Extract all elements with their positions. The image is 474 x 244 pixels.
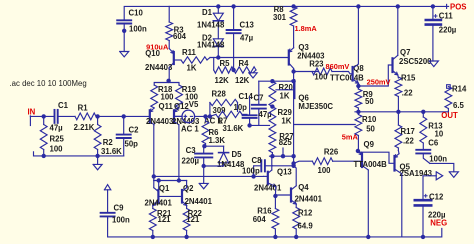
node top-rail junction C11 <box>431 4 435 8</box>
label R22 value <box>186 215 200 224</box>
label 910uA <box>146 42 169 51</box>
label C10 <box>129 9 144 18</box>
wire Q3 collector node <box>293 69 295 82</box>
svg-text:64.9: 64.9 <box>298 222 314 231</box>
label Q5 value <box>400 169 433 178</box>
resistor R26 <box>312 158 332 165</box>
svg-text:31.6K: 31.6K <box>101 147 122 156</box>
label C11 <box>439 12 454 21</box>
label R26 value <box>318 166 332 175</box>
transistor Q8 TTC004B <box>353 64 359 83</box>
wire rail to R3 <box>168 6 170 22</box>
wire mirror base rail <box>158 195 182 197</box>
svg-text:2SA1943: 2SA1943 <box>400 169 433 178</box>
label Q4 value <box>295 195 323 204</box>
svg-text:R14: R14 <box>452 85 467 94</box>
svg-text:C11: C11 <box>439 12 454 21</box>
label C11 value <box>439 26 457 35</box>
node top-rail junction D1 <box>216 4 220 8</box>
label D2 value <box>197 41 225 50</box>
svg-text:R25: R25 <box>50 135 65 144</box>
node bus c <box>291 154 295 158</box>
label R12 value <box>298 222 314 231</box>
wire mirror top bus <box>154 180 187 182</box>
node top-rail junction R8 <box>291 4 295 8</box>
capacitor C14 <box>243 97 257 125</box>
wire R8 to Q3 emitter <box>293 26 295 48</box>
capacitor C11 <box>426 6 441 61</box>
resistor R8 <box>290 6 297 26</box>
label R25 <box>50 135 65 144</box>
label R21 <box>157 209 172 218</box>
label C8 <box>252 156 263 165</box>
svg-text:47µ: 47µ <box>240 34 254 43</box>
resistor R14 <box>445 87 452 112</box>
label R27 value <box>279 138 293 147</box>
svg-text:100: 100 <box>50 145 64 154</box>
label C3 <box>186 146 197 155</box>
label R1 value <box>74 123 95 132</box>
svg-text:2N4401: 2N4401 <box>185 197 213 206</box>
label D5 <box>232 150 243 159</box>
resistor R17 <box>395 112 402 151</box>
label 1.8mA <box>295 24 318 33</box>
label Q7 value <box>399 57 432 66</box>
svg-text:R10: R10 <box>362 115 377 124</box>
wire C2 node to Q11 base <box>124 115 150 117</box>
node C8 left <box>251 174 255 178</box>
wire Q9 collector down <box>367 170 369 237</box>
svg-text:47µ: 47µ <box>50 123 64 132</box>
wire Q6 emitter bar <box>259 80 294 82</box>
node C14 bottom <box>247 123 251 127</box>
svg-text:2N4401: 2N4401 <box>254 184 282 193</box>
resistor R20 <box>269 81 276 109</box>
node R2 bottom <box>95 154 99 158</box>
label R13 value <box>435 130 444 139</box>
label Q8 value <box>330 74 364 83</box>
ground below C3 <box>199 183 208 188</box>
label Q10 value <box>145 63 173 72</box>
capacitor C8 <box>254 160 273 176</box>
svg-text:121: 121 <box>186 215 200 224</box>
svg-text:50: 50 <box>365 97 374 106</box>
node mirror top right <box>177 178 181 182</box>
label Q6 <box>298 93 309 102</box>
node rail R21 <box>151 235 155 239</box>
wire mirror to Q13 base <box>154 175 264 177</box>
label R17 value <box>403 137 415 146</box>
wire mirror tie <box>158 181 160 197</box>
resistor R27 <box>269 131 276 153</box>
ground below C11 <box>429 61 438 67</box>
label Q3 value <box>297 52 325 61</box>
svg-text:100: 100 <box>314 72 328 81</box>
wire Q7 collector to rail <box>397 6 399 55</box>
wire Q13 collector up <box>271 156 273 170</box>
node R2 top <box>95 114 99 118</box>
label Q8 <box>353 64 364 73</box>
label C13 <box>240 21 255 30</box>
label Q1 <box>159 184 170 193</box>
svg-text:.ac dec 10 10 100Meg: .ac dec 10 10 100Meg <box>10 79 87 88</box>
text .ac directive <box>10 79 87 88</box>
label R15 value <box>402 88 414 97</box>
node rail R16 <box>273 235 277 239</box>
svg-text:R12: R12 <box>298 209 313 218</box>
node top-rail junction C13 <box>231 4 235 8</box>
svg-text:1K: 1K <box>281 116 291 125</box>
node column R26 <box>291 161 295 165</box>
node R20 top <box>270 79 274 83</box>
resistor R6 <box>202 116 209 148</box>
svg-text:100: 100 <box>161 93 175 102</box>
label Q10 <box>145 49 160 58</box>
label C9 value <box>112 216 130 225</box>
svg-text:604: 604 <box>173 32 187 41</box>
label Q12 value <box>172 117 200 126</box>
svg-text:50: 50 <box>366 125 375 134</box>
resistor R13 <box>420 112 427 150</box>
label D1 <box>202 8 213 17</box>
node C2 top <box>122 114 126 118</box>
resistor R3 <box>166 22 173 41</box>
diode D5 1N4148 <box>219 146 229 166</box>
svg-text:R11: R11 <box>182 48 197 57</box>
resistor R18 <box>151 85 158 108</box>
svg-text:TTC004B: TTC004B <box>330 74 364 83</box>
label R29 <box>278 108 293 117</box>
wire Q8 collector to rail <box>357 6 359 64</box>
wire Q8 emitter down <box>357 83 359 89</box>
node Q9 emitter top <box>356 149 360 153</box>
label R28 <box>212 90 227 99</box>
label R16 <box>257 206 272 215</box>
label V5 <box>189 100 199 109</box>
resistor R22 <box>183 206 190 237</box>
svg-text:100p: 100p <box>242 167 260 176</box>
port POS <box>447 2 467 11</box>
wire R11 to bias node <box>207 58 210 61</box>
wire Q13 emitter down <box>274 187 276 197</box>
label R8 <box>274 5 285 14</box>
capacitor C10 <box>117 20 131 31</box>
label C6 value <box>429 154 447 163</box>
label Q1 value <box>145 199 173 208</box>
resistor R12 <box>293 208 300 237</box>
svg-text:12K: 12K <box>215 76 230 85</box>
svg-text:2SC5200: 2SC5200 <box>399 57 432 66</box>
label C3 value <box>182 157 200 166</box>
resistor R25 <box>40 116 47 155</box>
svg-text:C1: C1 <box>58 101 69 110</box>
svg-text:R28: R28 <box>212 90 227 99</box>
wire Q5 base <box>358 151 394 163</box>
ground below R2 <box>93 164 102 169</box>
svg-text:100n: 100n <box>429 154 447 163</box>
label Q2 <box>183 184 194 193</box>
svg-text:604: 604 <box>253 215 267 224</box>
svg-text:Q9: Q9 <box>364 140 375 149</box>
label R20 value <box>280 92 290 101</box>
node bus a <box>270 154 274 158</box>
svg-text:C2: C2 <box>129 126 140 135</box>
transistor Q12 2N4403 <box>174 108 182 125</box>
wire R27 bottom to node <box>271 153 273 157</box>
label C12 <box>429 193 444 202</box>
label R9 value <box>365 97 374 106</box>
port IN <box>28 108 36 126</box>
wire Q5 collector down <box>401 174 403 237</box>
svg-text:1K: 1K <box>280 92 290 101</box>
transistor Q7 2SC5200 <box>393 55 398 75</box>
svg-text:OUT: OUT <box>441 111 458 120</box>
node OUT R17 <box>396 110 400 114</box>
label R13 <box>428 121 443 130</box>
node bus b <box>281 154 285 158</box>
svg-text:10p: 10p <box>234 103 248 112</box>
transistor Q13 2N4401 <box>264 170 276 187</box>
label Q4 <box>298 183 309 192</box>
wire C8 right to column <box>272 165 293 167</box>
wire input ground bus <box>34 152 124 156</box>
svg-text:47µ: 47µ <box>259 110 273 119</box>
svg-text:R2: R2 <box>103 138 114 147</box>
label R5 <box>220 59 231 68</box>
label Q11 <box>159 102 174 111</box>
node top-rail junction Q7 <box>396 4 400 8</box>
svg-text:Q2: Q2 <box>183 184 194 193</box>
label R3 <box>174 25 185 34</box>
node OUT R13 <box>421 110 425 114</box>
resistor R29 <box>269 107 276 131</box>
svg-text:R1: R1 <box>78 104 89 113</box>
label Q6 value <box>298 102 333 111</box>
label R19 value <box>185 93 199 102</box>
svg-text:C3: C3 <box>186 146 197 155</box>
label D5 value <box>217 160 245 169</box>
svg-text:R26: R26 <box>324 147 339 156</box>
wire Q10 collector to tail <box>168 68 170 81</box>
wire C10 to ground <box>123 31 125 52</box>
label R23 <box>309 60 324 69</box>
capacitor C6 <box>416 150 430 164</box>
label Q5 <box>400 163 411 172</box>
resistor R19 <box>176 85 183 108</box>
wire Q4 collector up <box>294 166 297 186</box>
svg-text:250mV: 250mV <box>367 78 391 87</box>
label Q9 <box>364 140 375 149</box>
node C3 bottom <box>202 164 206 168</box>
svg-text:.22: .22 <box>403 137 415 146</box>
svg-text:C7: C7 <box>254 94 264 103</box>
label D2 <box>202 34 213 43</box>
wire C3 ground stem <box>203 166 205 183</box>
svg-text:D1: D1 <box>202 8 213 17</box>
wire Q7 base <box>358 65 392 86</box>
wire C6 to ground <box>430 163 454 171</box>
wire Q11 collector down <box>153 125 155 181</box>
ground above C9 <box>104 185 110 213</box>
wire Q6 base <box>276 89 293 91</box>
resistor R21 <box>149 206 156 237</box>
label Q13 value <box>254 184 282 193</box>
label R16 value <box>253 215 267 224</box>
label R26 <box>324 147 339 156</box>
svg-text:C6: C6 <box>428 139 439 148</box>
wire R28 right leg <box>237 103 239 112</box>
svg-text:1N4148: 1N4148 <box>217 160 245 169</box>
svg-text:R15: R15 <box>401 73 416 82</box>
capacitor C1 <box>55 110 76 123</box>
label R25 value <box>50 145 64 154</box>
svg-text:Q11: Q11 <box>159 102 174 111</box>
label C14 <box>239 92 254 101</box>
svg-text:31.6K: 31.6K <box>223 124 244 133</box>
wire IN to C1 <box>30 115 54 117</box>
svg-text:10: 10 <box>435 130 444 139</box>
svg-text:2N4401: 2N4401 <box>145 199 173 208</box>
wire R1 to R2 node <box>96 115 124 117</box>
transistor Q2 2N4401 <box>182 181 187 206</box>
svg-text:2N4401: 2N4401 <box>295 195 323 204</box>
label C13 value <box>240 34 254 43</box>
label Q11 value <box>146 117 174 126</box>
node feedback R28 <box>208 114 212 118</box>
label R14 value <box>453 101 465 110</box>
label R28 value <box>213 106 227 115</box>
node rail Q9 <box>366 235 370 239</box>
svg-text:C12: C12 <box>429 193 444 202</box>
svg-text:220µ: 220µ <box>439 26 457 35</box>
label R27 <box>279 132 293 141</box>
ground below C10 <box>120 52 129 57</box>
wire R27-node bus <box>270 155 294 157</box>
svg-text:Q1: Q1 <box>159 184 170 193</box>
diode D2 1N4148 <box>213 39 223 58</box>
wire Q6 collector down <box>293 81 295 166</box>
label C1 <box>58 101 69 110</box>
svg-text:C8: C8 <box>252 156 263 165</box>
node Q3 collector <box>291 69 295 73</box>
wire OUT rail <box>355 111 448 113</box>
wire stub 283 <box>282 148 284 156</box>
wire Q12 collector down <box>178 125 180 181</box>
node C10 bottom <box>122 29 126 33</box>
label R21 value <box>158 215 172 224</box>
label R4 <box>239 59 250 68</box>
svg-text:NEG: NEG <box>430 219 447 228</box>
svg-text:TTA004B: TTA004B <box>354 160 388 169</box>
transistor Q11 2N4403 <box>150 108 154 125</box>
wire bias node to Q3 base <box>210 57 289 59</box>
label Q9 value <box>354 160 388 169</box>
wire bottom NEG rail <box>108 218 442 237</box>
wire Q4 emitter down <box>295 204 297 208</box>
transistor Q3 2N4403 <box>289 48 294 69</box>
capacitor C2 <box>117 116 131 155</box>
open pin R14 <box>447 85 451 89</box>
svg-text:C14: C14 <box>239 92 254 101</box>
label R1 <box>78 104 89 113</box>
label R10 <box>362 115 377 124</box>
svg-text:R23: R23 <box>309 60 324 69</box>
resistor R4 <box>231 67 256 73</box>
label 250mV <box>367 78 391 87</box>
svg-text:1K: 1K <box>187 64 197 73</box>
svg-text:100n: 100n <box>112 216 130 225</box>
label R17 <box>401 127 415 136</box>
label R6 value <box>209 136 226 145</box>
transistor Q1 2N4401 <box>153 181 159 206</box>
node mirror top left <box>157 178 161 182</box>
voltage source V5 <box>174 110 210 123</box>
label R10 value <box>366 125 375 134</box>
svg-text:POS: POS <box>450 2 466 11</box>
label C2 <box>129 126 140 135</box>
svg-text:MJE350C: MJE350C <box>298 102 333 111</box>
wire R2 ground stem <box>97 156 99 165</box>
node mirror left <box>152 174 156 178</box>
svg-text:2N4403: 2N4403 <box>146 117 174 126</box>
svg-text:1.8mA: 1.8mA <box>295 24 318 33</box>
label R11 <box>182 48 197 57</box>
svg-text:C9: C9 <box>114 204 125 213</box>
label D1 value <box>197 21 225 30</box>
label R14 <box>452 85 467 94</box>
label V5 value <box>181 125 199 134</box>
label Q13 <box>277 168 292 177</box>
wire Q3col to R23 <box>294 71 318 73</box>
label R2 value <box>101 147 122 156</box>
label Q3 <box>298 43 309 52</box>
ground right of C6 <box>449 172 458 178</box>
label V5 value 2 <box>204 117 222 126</box>
node top-rail junction Q8 <box>356 4 360 8</box>
resistor R11 <box>181 57 207 63</box>
capacitor C12 <box>415 194 431 237</box>
label R4 value <box>235 76 250 85</box>
label R5 value <box>215 76 230 85</box>
wire R23 to Q8 base <box>343 72 353 74</box>
label R18 value <box>161 93 175 102</box>
svg-text:Q4: Q4 <box>298 183 309 192</box>
svg-text:6.5: 6.5 <box>453 101 465 110</box>
wire Q7 emitter to R15 <box>397 75 400 78</box>
label C9 <box>114 204 125 213</box>
svg-text:R4: R4 <box>239 59 250 68</box>
resistor R5 <box>214 67 234 73</box>
svg-text:1N4148: 1N4148 <box>197 21 225 30</box>
resistor R28 <box>210 99 238 116</box>
label C2 value <box>125 139 139 148</box>
wire R6 to D5 <box>204 145 224 147</box>
wire Q5 emitter link <box>397 151 400 154</box>
node Q6 emitter <box>291 79 295 83</box>
svg-text:Q8: Q8 <box>353 64 364 73</box>
node OUT R9R10 <box>356 110 360 114</box>
wire R26 to Q9 base <box>333 160 362 162</box>
label R19 <box>182 85 197 94</box>
capacitor C9 <box>101 213 115 219</box>
resistor R10 <box>355 112 362 151</box>
label R22 <box>188 209 203 218</box>
label Q7 <box>400 48 410 57</box>
ground right of R4 <box>249 70 257 78</box>
node rail R22 <box>184 235 188 239</box>
label R3 value <box>173 32 187 41</box>
svg-text:Q3: Q3 <box>298 43 309 52</box>
